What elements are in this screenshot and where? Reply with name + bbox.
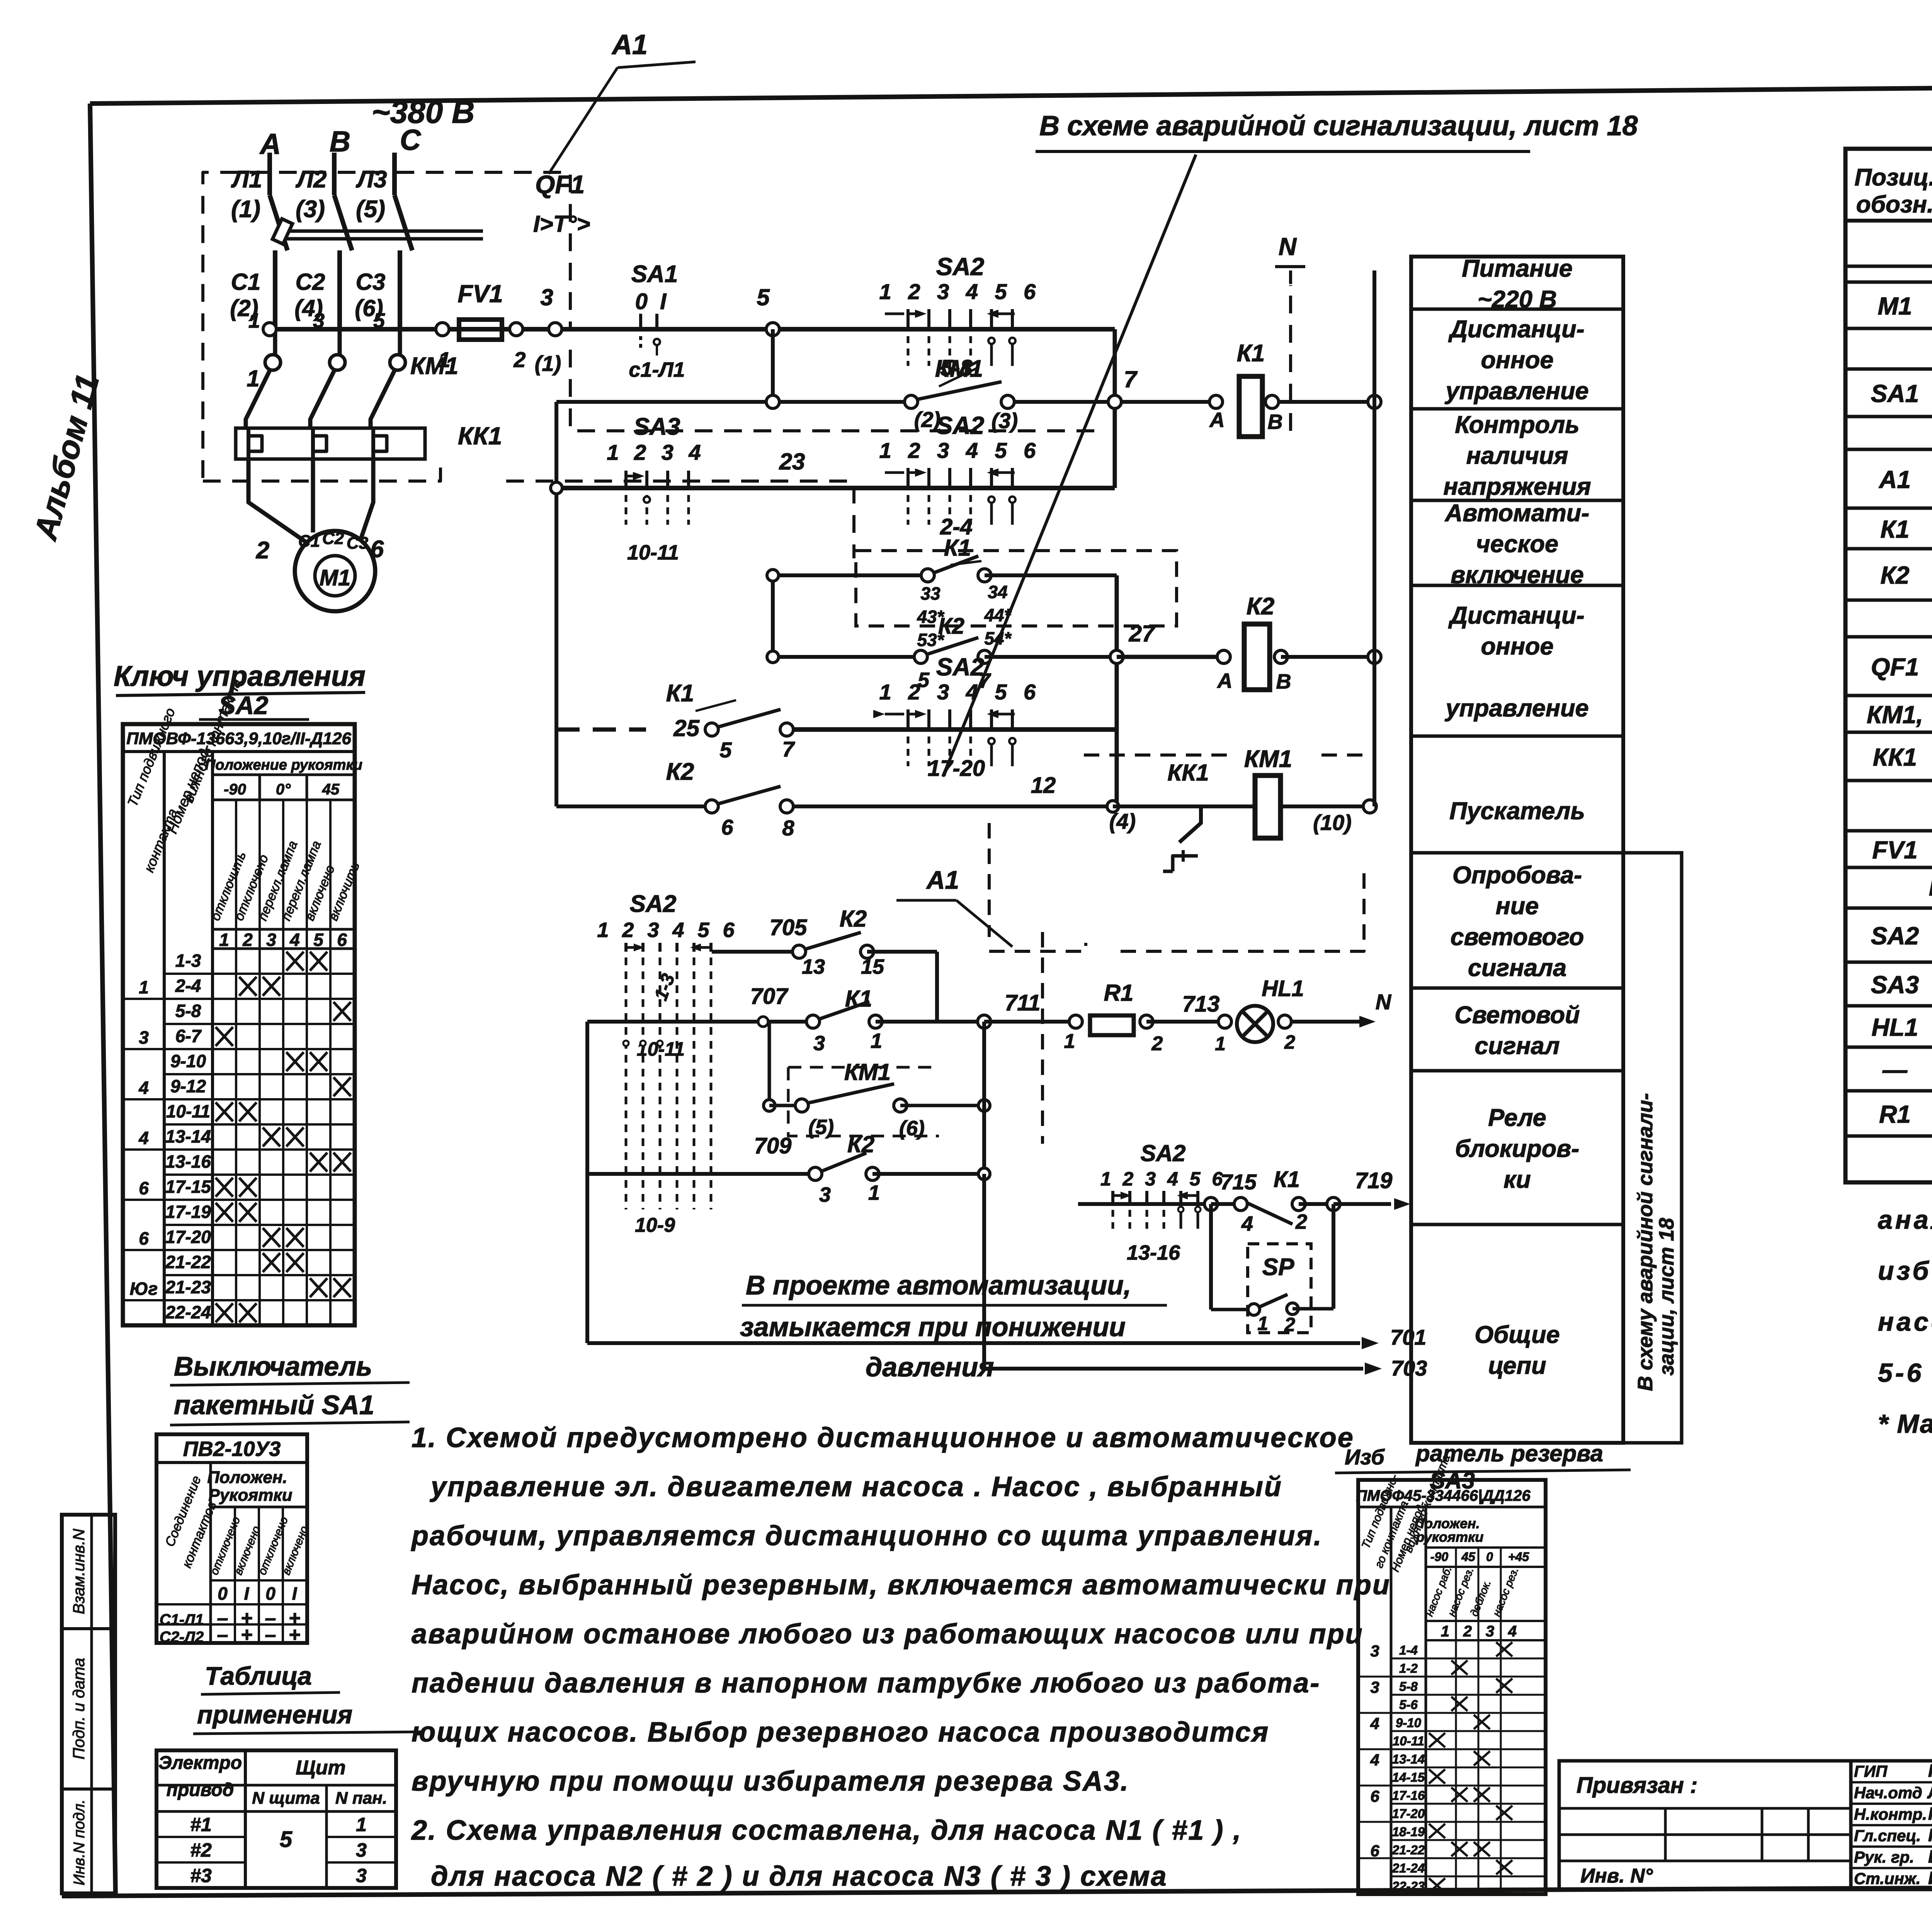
privyazan box [1559,1761,1851,1889]
svg-text:В: В [1276,670,1291,693]
node rail2 bus [1368,395,1381,408]
svg-text:SA2: SA2 [630,891,677,917]
svg-text:1 2 3 4 5 6: 1 2 3 4 5 6 [879,438,1041,463]
svg-text:аналогична за исключением н: аналогична за исключением номера контакт… [1878,1205,1932,1235]
svg-text:5-6 и 1-4 соответственно: 5-6 и 1-4 соответственно [1878,1358,1932,1388]
terminal numbers 2 4 6 [256,536,384,565]
svg-text:рабочим, управляется дистанци: рабочим, управляется дистанционно со щит… [411,1520,1323,1551]
svg-text:1 2 3 4 5 6: 1 2 3 4 5 6 [879,680,1041,704]
svg-text:3: 3 [819,1183,831,1206]
svg-text:4: 4 [289,930,300,950]
circuit breaker QF1 pole Л3 [395,153,412,329]
svg-text:Иванова: Иванова [1928,1868,1932,1888]
svg-text:3: 3 [356,1865,367,1886]
svg-text:К1: К1 [1274,1167,1300,1192]
pressure switch SP box [1248,1244,1311,1333]
svg-text:С2-Л2: С2-Л2 [160,1629,204,1646]
svg-text:13-14: 13-14 [1392,1752,1425,1766]
svg-text:45: 45 [1461,1550,1476,1564]
svg-text:4: 4 [1241,1212,1253,1235]
svg-text:сигнала: сигнала [1468,954,1566,981]
svg-text:R1: R1 [1104,980,1134,1006]
svg-text:709: 709 [754,1133,792,1158]
svg-text:17-19: 17-19 [165,1202,211,1222]
svg-text:избирателя резерва SA3. Дл: избирателя резерва SA3. Для насоса N2 (#… [1878,1256,1932,1286]
svg-text:17-20: 17-20 [1392,1806,1425,1821]
contact K2 aux [767,614,1115,692]
svg-text:17-16: 17-16 [1392,1788,1425,1803]
svg-text:Инв. N°: Инв. N° [1580,1865,1653,1887]
svg-text:6: 6 [1370,1842,1379,1860]
svg-text:(10): (10) [1313,810,1352,835]
parts table [1845,149,1932,1182]
switch SA2 contacts 5-8 [879,253,1041,381]
svg-text:блокиров-: блокиров- [1455,1135,1579,1162]
wire number 12 [1031,773,1056,798]
svg-text:2: 2 [242,930,253,950]
K1 aux contact box dashed [856,551,1177,626]
svg-text:5-8: 5-8 [175,1001,201,1021]
svg-text:пакетный SA1: пакетный SA1 [174,1390,374,1420]
svg-text:К2: К2 [938,614,964,639]
wire number 23 [779,449,805,474]
dash segment under KM1 row [989,755,1374,1144]
svg-text:7: 7 [782,737,795,761]
svg-text:К2: К2 [666,759,694,785]
svg-text:ГИП: ГИП [1854,1762,1888,1781]
terminal number 3 [313,309,325,332]
node 27 [1110,621,1156,663]
svg-text:QF1: QF1 [1871,653,1919,681]
svg-text:1: 1 [868,1181,880,1204]
svg-text:Ст.инж.: Ст.инж. [1854,1869,1920,1888]
svg-text:0: 0 [265,1583,276,1604]
svg-text:–: – [217,1624,228,1646]
svg-text:8: 8 [782,816,794,840]
contactor KM1 main contact 5 [371,329,405,428]
svg-text:6: 6 [139,1228,149,1248]
svg-text:Инв.N подл.: Инв.N подл. [71,1799,88,1886]
KK1 heater element [373,428,387,483]
svg-text:1 2 3 4 5 6: 1 2 3 4 5 6 [1100,1168,1226,1190]
svg-text:21-22: 21-22 [1392,1843,1425,1857]
svg-text:А1: А1 [611,29,648,60]
svg-text:6: 6 [139,1178,149,1198]
KK1 heater element [313,428,327,483]
svg-text:ПВ2-10У3: ПВ2-10У3 [183,1437,281,1461]
svg-text:-90: -90 [224,781,246,798]
svg-text:10-11: 10-11 [166,1101,210,1121]
svg-text:Автомати-: Автомати- [1444,500,1590,527]
svg-text:Гусева: Гусева [1928,1761,1932,1781]
N label [1275,233,1305,286]
svg-text:#3: #3 [190,1865,212,1886]
svg-text:4: 4 [1370,1714,1379,1733]
svg-text:Таблица: Таблица [205,1662,312,1690]
svg-text:КК1: КК1 [1873,743,1917,771]
leader line to sheet 18 [943,155,1196,777]
svg-text:сигнал: сигнал [1475,1032,1560,1060]
svg-text:1. Схемой предусмотрено дист: 1. Схемой предусмотрено дистанционное и … [412,1422,1354,1453]
wire rail5 [556,728,1117,732]
svg-text:цепи: цепи [1488,1352,1546,1379]
contact KM1 aux (2)(3) [905,355,1018,433]
svg-text:М1: М1 [320,565,351,590]
svg-text:В схеме аварийной сигнализации: В схеме аварийной сигнализации, лист 18 [1039,111,1638,141]
svg-text:FV1: FV1 [1872,836,1917,864]
contact K1 (5-7) [666,680,796,762]
QF1 trip bar [272,219,483,244]
vertical 711-709 [982,1022,986,1174]
svg-text:К2: К2 [1881,561,1910,589]
node 5 [757,284,779,336]
svg-text:К1: К1 [1881,515,1910,543]
svg-text:—: — [1882,1056,1908,1084]
svg-text:ющих насосов. Выбор резервн: ющих насосов. Выбор резервного насоса пр… [412,1717,1269,1748]
stamp text Подп. и дата [70,1658,88,1760]
svg-text:1: 1 [1215,1033,1226,1054]
wire number 25 [673,710,885,741]
contactor KM1 main contact 1 [246,329,281,428]
svg-text:Крейтер: Крейтер [1928,1804,1932,1824]
wire 703 arrow [984,1174,1427,1380]
svg-text:719: 719 [1355,1168,1393,1193]
function table side column [1623,853,1682,1443]
svg-text:1: 1 [139,977,149,997]
svg-text:Позиц.: Позиц. [1854,164,1932,191]
phase label B [330,125,350,158]
svg-text:1: 1 [248,309,260,332]
SA1 table [156,1434,311,1646]
svg-text:703: 703 [1391,1356,1427,1380]
svg-text:13-16: 13-16 [165,1151,211,1172]
relay coil K1 [1209,340,1283,437]
wire to N arrow [1278,990,1392,1028]
svg-text:* Маркировка для эл. привода: * Маркировка для эл. привода #2,#3 соотв… [1878,1409,1932,1439]
lamp HL1 [1215,976,1304,1054]
svg-text:управление: управление [1444,378,1588,405]
svg-text:К1: К1 [845,986,872,1012]
svg-text:рукоятки: рукоятки [1416,1529,1484,1545]
svg-text:701: 701 [1390,1325,1426,1349]
svg-text:применения: применения [197,1700,352,1729]
node 7 [1108,366,1138,408]
svg-text:0: 0 [218,1583,228,1604]
svg-text:Электро: Электро [158,1753,242,1773]
svg-text:А: А [1209,408,1225,432]
svg-text:6: 6 [337,930,347,950]
svg-text:15: 15 [861,955,884,978]
wire rail3 [551,482,1115,494]
switch SA2 contacts 2-4 [879,412,1041,539]
svg-text:1 2 3 4: 1 2 3 4 [607,440,705,464]
contact K1 715 [1211,1167,1340,1235]
svg-text:Гл.спец.: Гл.спец. [1854,1827,1921,1845]
svg-text:с1-Л1: с1-Л1 [629,358,685,381]
svg-text:2: 2 [513,347,526,372]
svg-text:4: 4 [138,1078,149,1098]
svg-text:+: + [241,1624,252,1646]
svg-text:управление: управление [1444,695,1588,722]
svg-text:N щита: N щита [252,1789,320,1808]
svg-text:1: 1 [356,1814,367,1835]
SA2 key title [114,660,366,719]
stamp text Взам.инв.№ [70,1529,88,1614]
svg-text:13-14: 13-14 [165,1126,211,1146]
svg-text:Насос, выбранный резервным, в: Насос, выбранный резервным, включается а… [412,1570,1391,1600]
KK1 heater element [248,428,262,483]
svg-text:14-15: 14-15 [1392,1770,1425,1784]
svg-text:С2: С2 [322,529,344,548]
svg-text:падении давления в напорном: падении давления в напорном патрубке люб… [412,1668,1320,1699]
svg-text:1-4: 1-4 [1399,1643,1418,1657]
svg-text:27: 27 [1129,621,1156,646]
svg-text:С3: С3 [347,534,368,553]
SA3 selector table [1356,1453,1546,1895]
svg-text:К2: К2 [840,906,867,932]
svg-text:+45: +45 [1508,1550,1529,1564]
svg-text:КМ1: КМ1 [1244,746,1292,772]
svg-text:Общие: Общие [1475,1321,1560,1349]
relay coil K2 [1117,593,1381,693]
svg-text:5: 5 [719,738,732,762]
label С3 (6) [355,269,385,321]
svg-text:6: 6 [721,815,733,839]
svg-text:зации, лист 18: зации, лист 18 [1655,1218,1678,1376]
label QF1 [533,170,590,237]
svg-text:3: 3 [1486,1623,1494,1640]
svg-text:(3): (3) [992,408,1018,433]
note text SP [740,1270,1167,1382]
switch SA2 contacts 17-20 [879,653,1041,781]
wire rail2 [556,400,1374,404]
pressure switch SP branch [1211,1204,1333,1335]
svg-text:I>T°>: I>T°> [533,211,590,237]
fuse FV1 [436,280,526,372]
svg-text:6-7: 6-7 [175,1026,202,1046]
svg-text:С1-Л1: С1-Л1 [160,1611,204,1628]
svg-text:КМ1: КМ1 [410,353,458,379]
album label [27,370,106,544]
svg-text:КМ1: КМ1 [844,1059,891,1085]
svg-text:4: 4 [138,1128,149,1148]
svg-text:~380 В: ~380 В [372,95,475,130]
svg-text:Привязан :: Привязан : [1577,1773,1697,1798]
svg-text:В проекте автоматизации,: В проекте автоматизации, [746,1270,1131,1300]
svg-text:13: 13 [802,955,825,978]
signature table [1851,1761,1932,1890]
K1aux join vertical [1115,575,1119,806]
svg-text:9-10: 9-10 [1396,1716,1422,1730]
svg-text:SA3: SA3 [1871,971,1919,999]
note text sheet18 [1036,111,1638,151]
wire 719 arrow [1333,1168,1410,1210]
svg-text:Дистанци-: Дистанци- [1448,602,1584,629]
svg-text:2: 2 [1463,1623,1472,1640]
svg-text:17-20: 17-20 [928,756,985,781]
svg-text:I: I [244,1583,250,1604]
wire 701 arrow [587,1325,1426,1349]
svg-text:707: 707 [750,984,789,1009]
svg-text:К1: К1 [666,680,694,707]
label KM1 main [410,353,458,379]
svg-text:Реле: Реле [1488,1104,1546,1131]
svg-text:9-12: 9-12 [170,1076,206,1096]
svg-text:КМ1,: КМ1, [1867,701,1923,729]
switch SA3 contacts [607,413,705,564]
svg-text:К2: К2 [847,1131,874,1157]
svg-text:1: 1 [247,366,259,391]
svg-text:SA1: SA1 [1871,380,1919,408]
svg-text:23: 23 [779,449,805,474]
svg-text:711: 711 [1005,990,1040,1015]
svg-text:N: N [1279,233,1297,260]
svg-text:1: 1 [1064,1030,1075,1053]
svg-text:ние: ние [1496,893,1539,920]
svg-text:3: 3 [1370,1678,1379,1696]
caption izbiratel [1335,1440,1631,1493]
left bus VL [554,402,558,806]
frame bottom segment title [1559,1886,1932,1889]
SA1 title [170,1351,410,1425]
svg-text:5: 5 [757,284,770,310]
svg-text:С: С [400,124,422,156]
svg-text:(4): (4) [1109,809,1136,833]
svg-text:Щит управления 1, секция 1: Щит управления 1, секция 1 [1929,872,1932,901]
phase label A [259,128,281,160]
wire to motor 1 [248,459,307,543]
stamp box column [62,1515,115,1893]
svg-text:33: 33 [920,583,940,604]
svg-text:(1): (1) [231,196,260,223]
svg-text:Л2: Л2 [295,166,327,193]
svg-text:FV1: FV1 [457,280,503,308]
notes right [1878,1205,1932,1439]
svg-text:4: 4 [1508,1623,1517,1640]
svg-text:Дистанци-: Дистанци- [1448,316,1584,343]
svg-text:13-16: 13-16 [1127,1241,1180,1264]
svg-text:К2: К2 [1247,593,1275,620]
node 711 [978,990,1040,1028]
function table [1411,255,1623,1443]
label Л1 [231,166,262,223]
application title [193,1662,421,1734]
svg-text:Боброва: Боброва [1928,1847,1932,1867]
circuit breaker QF1 pole Л2 [334,153,352,329]
svg-text:онное: онное [1481,633,1553,660]
switch SA2 group lamp [597,891,738,1236]
svg-text:22-23: 22-23 [1392,1879,1425,1893]
svg-text:17-20: 17-20 [165,1227,211,1247]
label A1 top [549,29,696,174]
svg-text:1 2 3 4 5 6: 1 2 3 4 5 6 [879,279,1041,304]
svg-text:#2: #2 [190,1839,212,1861]
svg-text:7: 7 [1124,366,1138,392]
svg-text:+: + [289,1624,300,1646]
svg-text:SA2: SA2 [1141,1140,1186,1166]
key table SA2 [123,676,362,1325]
svg-text:SA2: SA2 [936,412,985,439]
svg-text:Световой: Световой [1454,1002,1580,1029]
svg-text:Выключатель: Выключатель [174,1351,372,1381]
wire rail11 715 [1078,1140,1226,1264]
svg-text:С1: С1 [231,269,261,295]
svg-text:3: 3 [139,1027,149,1048]
svg-text:1: 1 [871,1029,882,1053]
svg-text:вручную при помощи избирате: вручную при помощи избирателя резерва SA… [412,1766,1129,1797]
svg-text:Подп. и дата: Подп. и дата [70,1658,88,1760]
svg-text:QF1: QF1 [535,170,585,199]
svg-text:2. Схема управления составле: 2. Схема управления составлена, для насо… [411,1815,1242,1846]
svg-text:аварийном останове любого и: аварийном останове любого из работающих … [412,1619,1364,1650]
aux left vertical [771,575,775,657]
svg-text:напряжения: напряжения [1443,473,1591,500]
label KK1 lower [1167,760,1209,786]
contact KK1 NC [1163,806,1201,871]
notes paragraphs [411,1422,1391,1892]
wire rail9 709 [587,1131,990,1206]
svg-text:2: 2 [1151,1032,1163,1055]
svg-text:(3): (3) [296,196,325,223]
bus right vertical [1372,270,1376,806]
svg-text:А1: А1 [926,866,959,894]
svg-text:5-8: 5-8 [1399,1679,1418,1694]
svg-text:HL1: HL1 [1262,976,1304,1001]
svg-text:I: I [292,1583,298,1604]
label ~380V [372,95,475,130]
svg-text:Питание: Питание [1462,255,1572,282]
node5 vertical [766,329,779,408]
svg-text:1: 1 [1257,1313,1268,1334]
application table [156,1750,396,1888]
svg-text:А: А [1217,669,1233,692]
stamp text Инв.№ подл. [71,1799,88,1886]
svg-text:давления: давления [866,1352,994,1382]
svg-text:Контроль: Контроль [1455,412,1579,439]
svg-text:С1: С1 [298,532,320,551]
svg-text:В: В [1268,410,1283,434]
svg-text:1: 1 [1441,1623,1449,1640]
svg-text:3: 3 [1370,1642,1379,1660]
svg-text:Н.контр.: Н.контр. [1854,1805,1927,1823]
svg-text:0 I: 0 I [635,289,670,314]
svg-text:705: 705 [770,915,808,940]
svg-text:21-23: 21-23 [165,1277,211,1297]
svg-text:N пан.: N пан. [335,1789,387,1808]
contact K1 aux [767,535,1117,650]
svg-text:Крейтер: Крейтер [1928,1825,1932,1845]
svg-text:КК1: КК1 [1167,760,1209,786]
label Л2 [295,166,327,223]
contactor coil KM1 [1201,746,1376,838]
wire rail6 KM1 coil [556,801,1169,812]
svg-text:наличия: наличия [1466,442,1568,469]
svg-text:А1: А1 [1878,466,1911,493]
svg-text:N: N [1376,990,1392,1014]
svg-text:12: 12 [1031,773,1056,798]
svg-text:управление эл. двигателем н: управление эл. двигателем насоса . Насос… [430,1471,1282,1502]
svg-text:замыкается при понижении: замыкается при понижении [740,1312,1126,1342]
svg-text:45: 45 [322,781,340,798]
svg-text:SA3: SA3 [634,413,680,440]
left bus lamp circuit [585,1022,589,1343]
svg-text:привод: привод [167,1780,234,1800]
KM1 aux holding branch [764,1022,990,1140]
svg-text:17-15: 17-15 [165,1177,211,1197]
svg-text:10-11: 10-11 [1393,1734,1424,1748]
svg-text:#1: #1 [190,1814,212,1835]
svg-text:715: 715 [1220,1170,1257,1194]
